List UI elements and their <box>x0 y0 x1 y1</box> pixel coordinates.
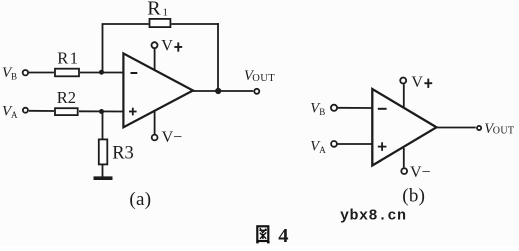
svg-text:A: A <box>319 145 326 155</box>
svg-text:4: 4 <box>278 225 288 246</box>
svg-text:R1: R1 <box>57 49 79 68</box>
svg-text:B: B <box>319 107 325 117</box>
svg-text:B: B <box>11 72 17 82</box>
svg-text:ybx8.cn: ybx8.cn <box>340 208 407 225</box>
svg-text:(b): (b) <box>402 186 425 207</box>
svg-text:1: 1 <box>163 7 169 19</box>
svg-text:V: V <box>161 37 173 54</box>
svg-text:R3: R3 <box>112 144 134 164</box>
svg-text:A: A <box>11 110 18 120</box>
svg-text:V: V <box>411 74 423 91</box>
svg-text:R2: R2 <box>57 88 76 107</box>
svg-text:OUT: OUT <box>252 73 275 84</box>
svg-text:R: R <box>147 0 161 19</box>
svg-text:OUT: OUT <box>493 126 514 137</box>
svg-text:V−: V− <box>162 129 183 146</box>
svg-text:(a): (a) <box>129 189 151 210</box>
svg-text:V−: V− <box>410 164 431 181</box>
